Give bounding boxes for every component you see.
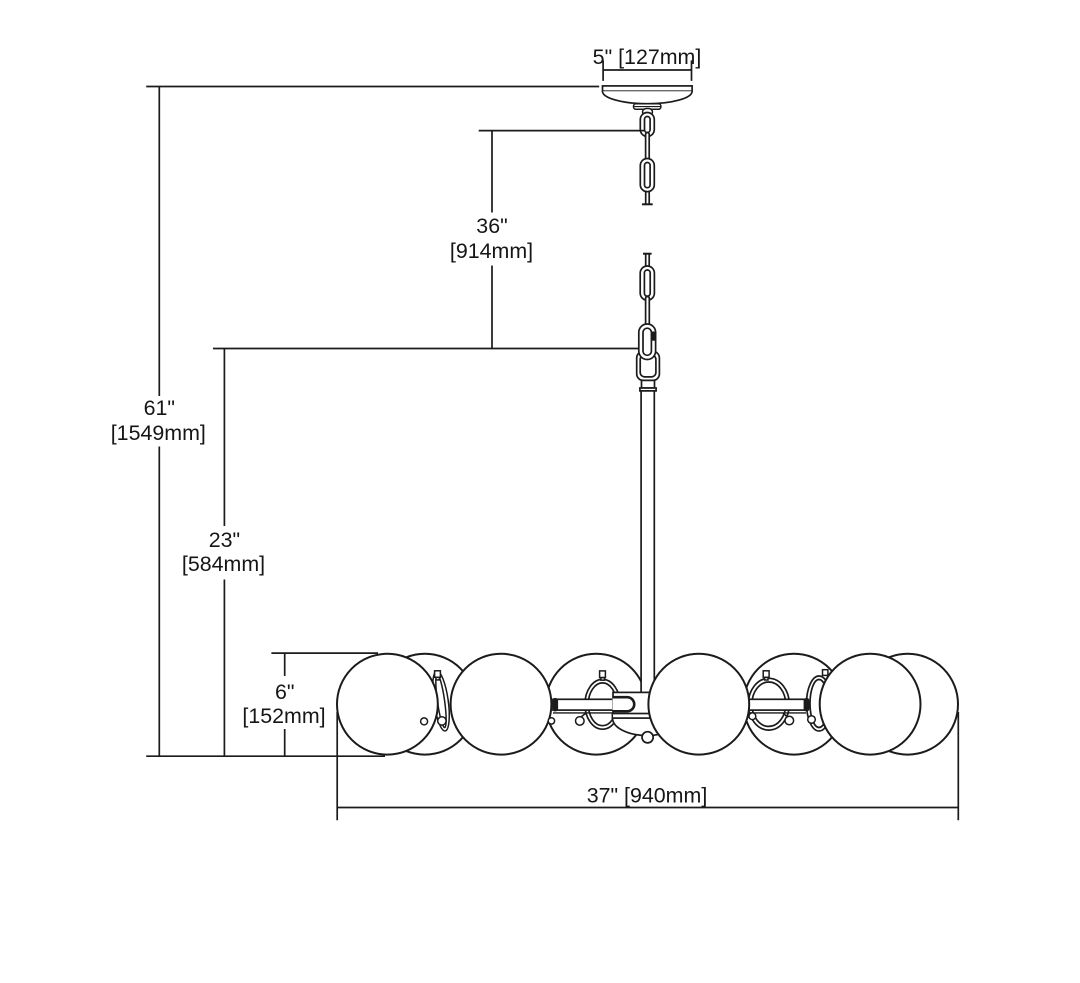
front thumbscrew near F3: [749, 713, 756, 720]
hanger loop: [637, 351, 660, 380]
dimension 37in extension lines: [337, 712, 958, 821]
chain link L1: [640, 113, 654, 137]
ring holder B2 top screw tab: [600, 671, 606, 680]
rod collar: [642, 380, 655, 388]
dimension 37in line: [337, 807, 958, 809]
svg-text:36": 36": [476, 214, 507, 238]
svg-text:[914mm]: [914mm]: [450, 239, 533, 263]
arm bar right end cap: [804, 698, 810, 712]
hub box: [613, 692, 655, 713]
canopy collar: [634, 104, 661, 116]
quick link / carabiner: [639, 324, 656, 360]
chain edge stub with break bar (lower): [643, 253, 652, 255]
36in tick end overlapping chain link: [640, 130, 645, 132]
dimension 61in top tick: [146, 86, 599, 88]
ring holder B3 bottom thumbscrew: [783, 713, 794, 725]
ring holder B1 bottom thumbscrew: [438, 717, 446, 725]
dimension 6in vertical line: [284, 653, 286, 756]
back globe B2: [546, 654, 647, 755]
fixture body: [375, 654, 958, 755]
dimension 36in vertical line: [491, 131, 493, 349]
dimension 23in vertical line: [223, 349, 225, 757]
svg-text:61": 61": [144, 396, 175, 420]
hub dome: [613, 718, 682, 736]
ring holder B3 top screw tab: [763, 671, 769, 680]
dimension 6in top tick: [271, 652, 378, 654]
ring holder B2 bottom thumbscrew: [576, 713, 587, 725]
under-bar plate line: [553, 712, 806, 714]
front globe F2: [451, 654, 552, 755]
carabiner gate: [651, 332, 656, 341]
svg-text:37" [940mm]: 37" [940mm]: [587, 783, 708, 807]
chain edge link E1: [646, 133, 650, 163]
back globe B4: [857, 654, 958, 755]
arm bar: [553, 699, 807, 710]
svg-text:[584mm]: [584mm]: [182, 552, 265, 576]
canopy: [603, 86, 693, 104]
dimension 5in line: [603, 69, 691, 71]
ring holder B2: [585, 679, 620, 729]
ring holder B3: [748, 678, 789, 730]
arm bar left end cap: [552, 698, 558, 712]
rod: [641, 391, 654, 693]
svg-text:5" [127mm]: 5" [127mm]: [593, 45, 702, 69]
svg-text:[1549mm]: [1549mm]: [111, 421, 206, 445]
dimension 5in end ticks: [603, 60, 691, 81]
chain link L3: [640, 266, 654, 300]
back globe B3: [744, 654, 845, 755]
svg-text:23": 23": [209, 528, 240, 552]
hub arm pill end: [613, 697, 635, 711]
front thumbscrew near F2: [548, 718, 554, 724]
ring holder B4 top screw tab: [823, 670, 828, 676]
front globe F3: [648, 654, 749, 755]
back globe B1: [375, 654, 476, 755]
hub ball finial: [642, 732, 653, 743]
chain edge stub with break bar (upper): [646, 191, 650, 205]
front thumbscrew near F1: [421, 718, 428, 725]
front globe F1: [337, 654, 438, 755]
svg-text:6": 6": [275, 680, 295, 704]
ring holder B4 (edge-on, tilted): [807, 676, 832, 731]
dimension 36in top tick: [479, 130, 642, 132]
chain link L2: [640, 159, 654, 192]
dimension 61in vertical line: [158, 87, 160, 757]
front globe F4: [820, 654, 921, 755]
ring holder B4 bottom thumbscrew: [808, 716, 816, 724]
chain: [637, 113, 660, 391]
chain edge link E3: [646, 297, 650, 327]
svg-text:[152mm]: [152mm]: [242, 704, 325, 728]
ring holder B1 top screw tab: [435, 671, 441, 680]
hub flange: [612, 714, 656, 718]
dimension shared bottom tick: [146, 755, 385, 757]
ring holder B1 (edge-on, tilted): [430, 670, 453, 732]
dimension 23/36 shared tick: [213, 348, 639, 350]
